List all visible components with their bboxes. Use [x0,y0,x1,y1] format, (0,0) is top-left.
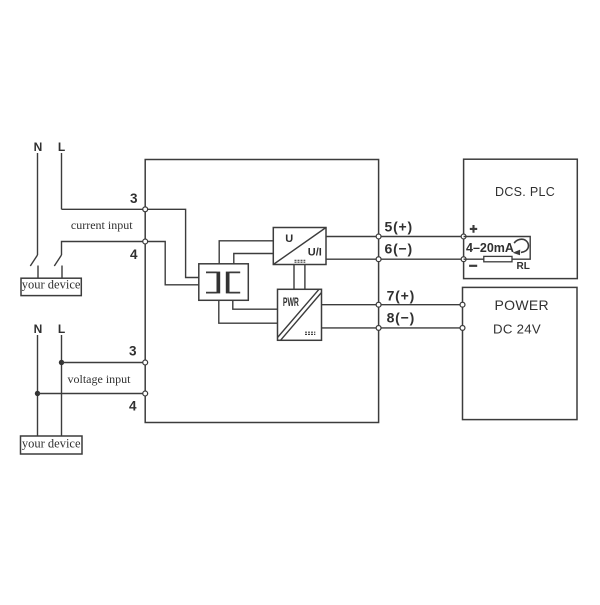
svg-text:POWER: POWER [495,297,549,313]
wire terminal 7 to POWER [379,304,463,306]
svg-text:3: 3 [129,344,137,359]
svg-text:N: N [34,140,43,154]
node power + [460,302,465,307]
transformer T1 box [199,264,249,301]
terminal 7 circle [376,302,381,307]
op-amp U1 U/I converter box [273,228,326,265]
svg-text:L: L [58,140,65,154]
terminal 5 circle [376,234,381,239]
transducer main box [145,160,378,423]
wire 4-20mA loop [464,237,531,260]
svg-text:5(+): 5(+) [385,219,414,235]
svg-text:L: L [58,322,65,336]
wire L line (voltage input) [61,335,63,436]
svg-text:6(−): 6(−) [385,241,414,257]
wire L to terminal 3 (voltage) [62,362,146,364]
svg-text:U: U [285,233,293,245]
wire L to terminal 3 [62,208,146,210]
resistor RL [484,256,512,261]
your device box (voltage input) [21,436,83,454]
terminal 4 circle (current) [143,239,148,244]
current direction arrow [514,239,528,252]
link U1 to PWR [294,265,305,290]
wire U1 to terminal 5 [326,236,379,238]
wire N to terminal 4 (voltage) [38,393,146,395]
node power - [460,325,465,330]
svg-text:DC 24V: DC 24V [493,322,541,337]
wire L line (current input) [61,153,63,209]
node junction N [35,391,40,396]
wire terminal 6 to DCS - [379,258,464,260]
svg-text:RL: RL [517,261,530,272]
svg-text:4–20mA: 4–20mA [466,241,514,255]
wire terminal 4 to switch S2 [62,242,146,256]
wire PWR to terminal 8 [322,327,379,329]
wire transformer to PWR (upper) [233,300,278,309]
svg-text:DCS. PLC: DCS. PLC [495,185,555,199]
svg-text:4: 4 [129,399,137,414]
power module PWR box [278,289,322,340]
svg-text:your device: your device [22,278,81,292]
POWER box [463,287,578,419]
svg-text:4: 4 [130,247,138,262]
node - (DCS) [461,257,466,262]
U1 chopper symbol [295,260,306,262]
transformer T1 core left [206,272,217,292]
terminal 4 circle (voltage) [143,391,148,396]
svg-text:PWR: PWR [283,297,299,309]
svg-text:U/I: U/I [308,247,322,259]
svg-text:3: 3 [130,191,138,206]
wire U1 to terminal 6 [326,258,379,260]
svg-text:voltage input: voltage input [68,372,132,386]
switch S1 (N side) [30,255,38,278]
wire transformer to U converter (lower) [234,254,273,264]
switch S2 (L side) [54,255,62,278]
wire transformer to U converter (upper) [219,241,273,264]
wire transformer to PWR (lower) [219,300,278,323]
terminal 3 circle (current) [143,207,148,212]
wire terminal 5 to DCS + [379,236,464,238]
wire N line (voltage input) [37,335,39,436]
terminal 8 circle [376,325,381,330]
wire PWR to terminal 7 [322,304,379,306]
svg-text:7(+): 7(+) [387,287,416,303]
wire terminal 8 to POWER [379,327,463,329]
node junction L [59,360,64,365]
wire terminal 4 to transformer primary [145,242,199,285]
svg-text:your device: your device [22,436,81,450]
wire N line (current input) [37,153,39,255]
svg-text:8(−): 8(−) [387,309,416,325]
terminal 3 circle (voltage) [143,360,148,365]
PWR chopper symbol [305,332,315,334]
svg-text:N: N [34,322,43,336]
svg-text:current input: current input [71,218,133,232]
transformer T1 core right [230,272,241,292]
your device box (current input) [21,278,81,295]
node + (DCS) [461,234,466,239]
terminal 6 circle [376,257,381,262]
DCS PLC box [464,159,578,278]
wire terminal 3 to transformer primary [145,209,199,277]
